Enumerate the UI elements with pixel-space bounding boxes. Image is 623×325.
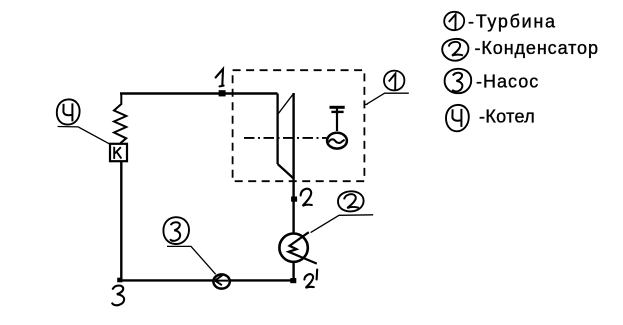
- svg-text:-Конденсатор: -Конденсатор: [475, 38, 599, 58]
- svg-text:-Турбина: -Турбина: [468, 12, 557, 32]
- svg-text:-Насос: -Насос: [476, 71, 539, 91]
- svg-text:-Котел: -Котел: [479, 106, 535, 126]
